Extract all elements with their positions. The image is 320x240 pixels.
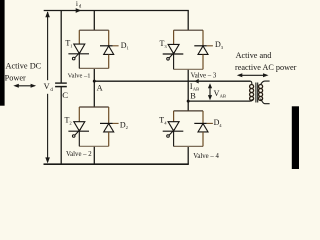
diode D2 cathode bar	[100, 122, 113, 124]
svg-text:i: i	[76, 0, 78, 8]
thyristor T3 cathode bar	[163, 53, 184, 55]
wire: left DC rail lower segment	[60, 87, 62, 164]
wire: right leg valve4 to bottom bus	[187, 146, 189, 164]
thyristor T2 triangle	[74, 122, 85, 131]
diode D3 cathode bar	[194, 45, 207, 47]
thyristor T4 cathode lead	[173, 131, 175, 146]
label D3	[215, 40, 224, 50]
capacitor C lower plate	[55, 86, 67, 88]
label T3	[160, 39, 168, 49]
svg-text:C: C	[62, 90, 68, 100]
thyristor T4 gate circle	[167, 135, 170, 138]
diode D4 cathode bar	[194, 122, 207, 124]
wire: left leg valve2 to bottom bus	[93, 146, 95, 164]
label T1	[65, 39, 73, 49]
svg-text:Active and: Active and	[236, 51, 272, 60]
wire: right leg node B to valve4	[187, 101, 189, 111]
DC power arrow right head	[31, 84, 36, 88]
valve 2 box top edge	[79, 106, 108, 108]
label D2	[120, 120, 129, 130]
wire: left leg node A to valve2	[93, 81, 95, 107]
valve 4 box bottom edge	[174, 145, 203, 147]
diode D1 cathode bar	[100, 45, 113, 47]
label id current	[76, 0, 82, 10]
valve 4 box top edge	[174, 110, 203, 112]
label T2	[65, 115, 73, 125]
AC power double arrow line	[239, 74, 266, 76]
svg-text:Active DC: Active DC	[6, 62, 42, 71]
diode D3 label leader	[207, 45, 213, 47]
transformer primary bottom hook	[250, 99, 252, 101]
diode D2 triangle	[104, 124, 114, 132]
wire: right leg top stem	[187, 11, 189, 31]
thyristor T4 cathode bar	[163, 130, 184, 132]
thyristor T1 gate circle	[72, 57, 75, 60]
diode D4 triangle	[198, 124, 208, 132]
thyristor T3 anode lead	[173, 30, 175, 44]
VAB dimension line	[209, 85, 211, 99]
svg-text:AB: AB	[220, 94, 226, 99]
svg-text:Valve – 2: Valve – 2	[66, 151, 92, 158]
Vd dimension arrow upper segment	[47, 12, 49, 80]
diode D2 anode lead	[108, 132, 110, 146]
node A junction dot	[93, 80, 96, 83]
svg-text:reactive AC power: reactive AC power	[235, 63, 297, 72]
svg-text:Valve –1: Valve –1	[68, 72, 91, 79]
svg-text:V: V	[44, 82, 50, 91]
capacitor C upper plate	[55, 82, 67, 84]
wire: left leg valve1 to node A	[93, 68, 95, 81]
thyristor T4 anode lead	[173, 111, 175, 122]
thyristor T4 triangle	[168, 122, 179, 131]
thyristor T2 anode lead	[78, 107, 80, 122]
wire: top DC bus	[44, 10, 189, 12]
right black border bar	[292, 106, 299, 169]
IAB current arrowhead	[194, 79, 198, 84]
wire: left DC rail upper segment	[60, 11, 62, 84]
wire: A line to transformer	[94, 80, 250, 82]
svg-text:A: A	[97, 83, 103, 92]
thyristor T3 gate circle	[167, 58, 170, 61]
thyristor T1 cathode lead	[78, 54, 80, 69]
AC power arrow right head	[263, 73, 269, 77]
thyristor T1 anode lead	[78, 30, 80, 44]
diode D2 label leader	[113, 122, 119, 124]
thyristor T1 triangle	[74, 44, 85, 53]
diode D3 cathode lead	[202, 30, 204, 46]
thyristor T1 gate lead	[75, 52, 81, 58]
diode D1 cathode lead	[108, 30, 110, 46]
valve 3 box top edge	[174, 29, 203, 31]
transformer primary top hook	[250, 81, 251, 84]
diode D1 triangle	[104, 46, 114, 54]
diode D1 anode lead	[108, 54, 110, 68]
valve 2 box bottom edge	[79, 145, 108, 147]
thyristor T2 gate lead	[75, 129, 81, 135]
transformer primary winding	[250, 85, 254, 101]
diode D3 triangle	[198, 46, 208, 54]
valve 1 box top edge	[79, 29, 108, 31]
VAB arrowhead down	[208, 95, 212, 100]
left black border bar	[0, 0, 5, 106]
transformer secondary bottom lead	[261, 99, 270, 104]
diode D3 anode lead	[202, 54, 204, 69]
transformer secondary winding	[259, 85, 263, 101]
label D4	[214, 118, 223, 128]
thyristor T4 gate lead	[169, 129, 175, 135]
transformer core lines	[256, 83, 258, 103]
DC power double arrow line	[16, 85, 35, 87]
VAB arrowhead up	[208, 83, 212, 88]
label IAB	[190, 82, 199, 92]
wire: B line to transformer	[188, 100, 250, 102]
valve 3 box bottom edge	[174, 68, 203, 70]
thyristor T2 cathode bar	[68, 130, 89, 132]
id arrowhead on top bus	[76, 8, 82, 13]
label Vd	[44, 82, 54, 93]
svg-text:B: B	[190, 91, 196, 100]
svg-text:Valve – 3: Valve – 3	[191, 73, 217, 80]
AC power arrow left head	[237, 73, 243, 77]
node B junction dot	[187, 100, 190, 103]
label T4	[159, 116, 167, 126]
diode D1 label leader	[113, 45, 119, 47]
wire: left leg top stem	[93, 11, 95, 31]
svg-text:Power: Power	[5, 74, 26, 83]
label D1	[121, 41, 130, 51]
DC power arrow left head	[13, 84, 18, 88]
Vd dimension arrow lower segment	[47, 94, 49, 162]
thyristor T3 gate lead	[169, 52, 175, 58]
diode D2 cathode lead	[108, 107, 110, 123]
valve 1 box bottom edge	[79, 67, 108, 69]
diode D4 label leader	[207, 122, 213, 124]
thyristor T3 triangle	[168, 44, 179, 53]
svg-text:Valve – 4: Valve – 4	[193, 153, 219, 160]
diode D4 cathode lead	[202, 111, 204, 124]
thyristor T1 cathode bar	[68, 53, 89, 55]
diode D4 anode lead	[202, 132, 204, 147]
label VAB	[214, 89, 226, 99]
Vd arrowhead down	[45, 157, 50, 163]
thyristor T2 cathode lead	[78, 131, 80, 146]
transformer secondary top lead	[261, 81, 270, 85]
thyristor T2 gate circle	[72, 135, 75, 138]
wire: right leg valve3 to node B	[187, 69, 189, 101]
thyristor T3 cathode lead	[173, 54, 175, 69]
Vd arrowhead up	[45, 11, 50, 17]
wire: bottom DC bus	[44, 163, 189, 165]
